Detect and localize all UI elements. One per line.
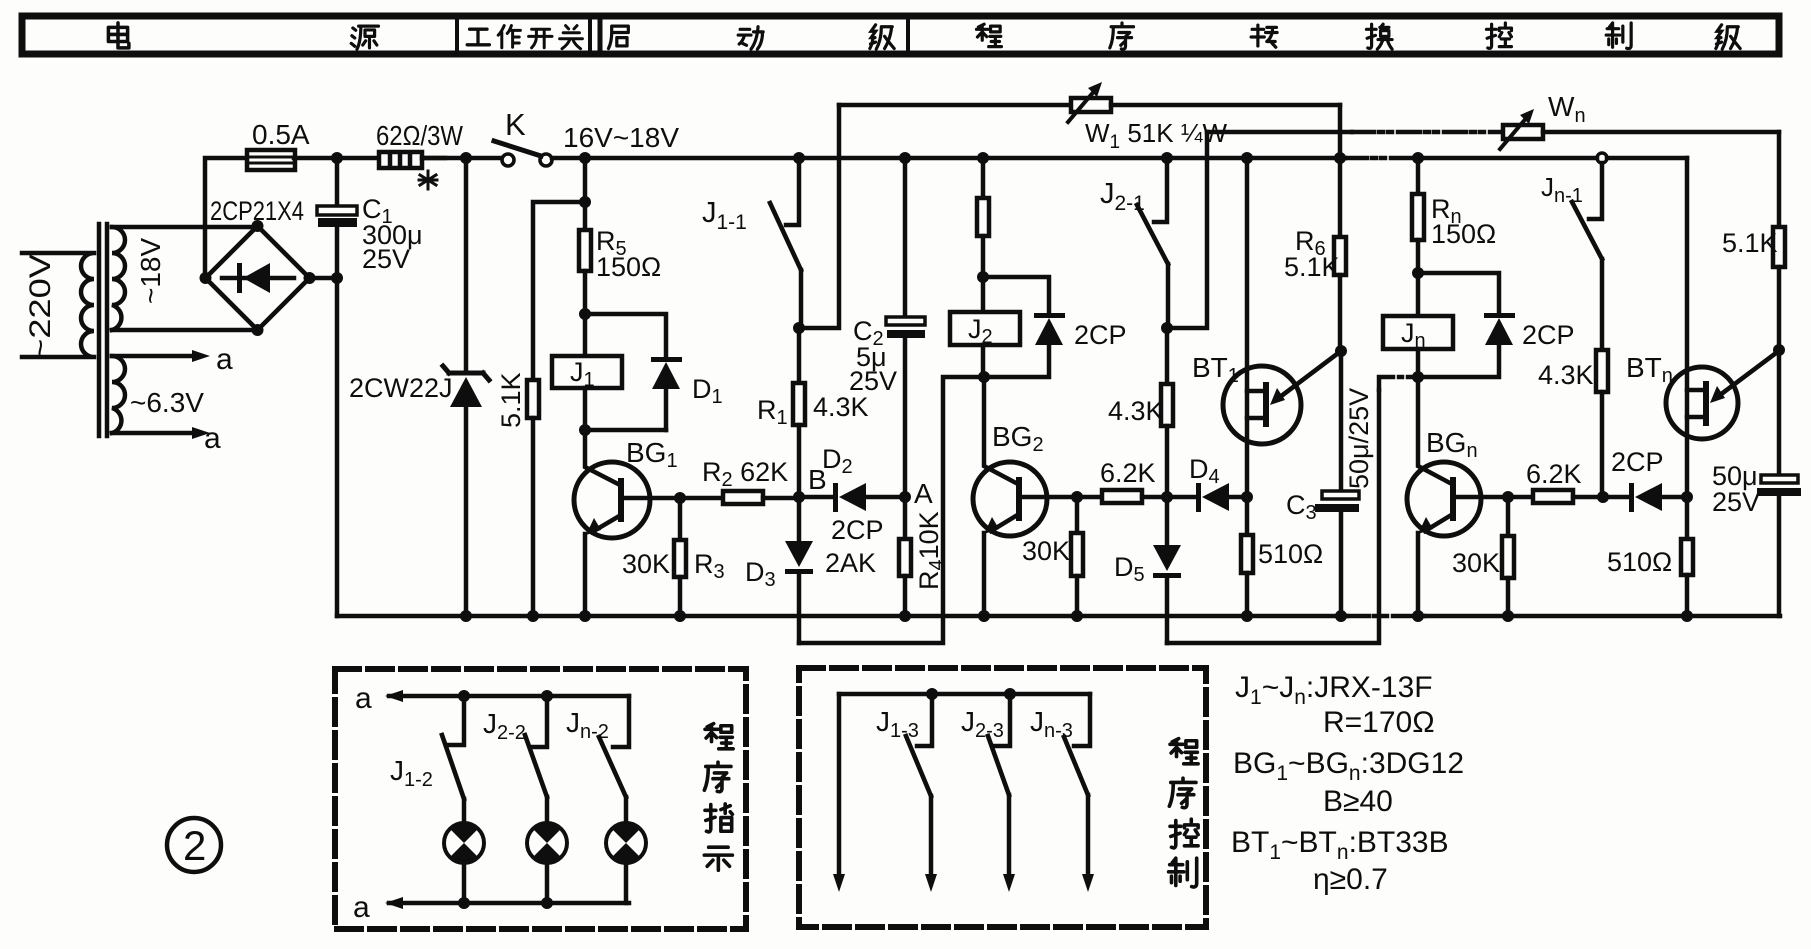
relay contact J1-1 [786,158,799,225]
relay contact J1-3 [917,694,932,746]
resistor 4.3K stage2 [1165,328,1170,384]
svg-text:30K: 30K [1022,536,1070,566]
lamp bus bottom wire [389,901,629,906]
resistor 5.1K (stage1 bias) [579,196,591,208]
node base/R3 [674,492,686,504]
svg-text:5.1K: 5.1K [1284,252,1340,282]
header text 换 [1366,24,1392,49]
capacitor C3 50u/25V [1339,351,1344,491]
transistor BGn [1418,377,1450,483]
resistor 510ohm stage2 [1245,497,1250,535]
control bus top wire [839,692,1090,697]
wire Jn bottom [1416,349,1421,377]
node lamp1 top [458,690,470,702]
wire J2 top to 2CP top [983,277,1049,313]
main rail 16V-18V [552,156,1345,161]
relay contact J2-3 [995,694,1010,746]
node rail J2-1 [1161,152,1173,164]
node 30K bottom stagen [1502,610,1514,622]
node J2 top branch [977,271,989,283]
svg-text:25V: 25V [362,244,410,274]
diode D1 [651,357,682,362]
diode 2CP coupling stagen [1629,483,1634,512]
node J1 bottom / BG1 collector [579,424,591,436]
svg-text:a: a [204,422,221,455]
diode D5 [1165,497,1170,545]
node B [793,491,805,503]
svg-text:2CP: 2CP [1522,320,1575,350]
resistor R1 4.3K [797,328,802,383]
header text 启 [608,26,628,48]
dashed box program indication [335,669,746,929]
node R3 bottom [674,610,686,622]
asterisk mark [419,171,437,189]
header table 电源/工作开关/启动级/程序转换控制级 [22,16,1779,54]
wire W1 left leg [799,105,839,328]
node C3 bottom [1335,610,1347,622]
lamp bus top wire [389,694,629,699]
wire fuse to C1 node to 62ohm [294,156,445,161]
label 程序控制 vertical [1169,739,1199,887]
bridge rectifier 2CP21X4 [206,226,310,330]
node A [899,491,911,503]
header text 级 [870,25,894,49]
wire Wn left leg [1167,132,1207,328]
svg-text:25V: 25V [849,366,897,396]
svg-text:62Ω/3W: 62Ω/3W [376,120,463,151]
svg-text:510Ω: 510Ω [1607,547,1672,577]
svg-text:25V: 25V [1712,487,1760,517]
svg-text:a: a [355,682,372,715]
wire Wn line solid part [1207,130,1352,135]
header text 程 [976,24,1001,46]
figure number circled 2 [167,818,221,872]
node C2 rail [899,152,911,164]
rail dash-dot break [1345,156,1424,161]
node J1-3 top [926,688,938,700]
svg-text:R=170Ω: R=170Ω [1323,706,1435,739]
potentiometer Wn [1503,125,1543,139]
header text 转 [1251,25,1277,47]
wire Wn line dash-dot part [1352,130,1503,135]
bottom rail [337,614,1347,619]
svg-text:2CP: 2CP [1611,447,1664,477]
wire BG1 base to R2 [624,496,723,501]
relay coil J2 [950,312,1020,345]
transformer primary winding ~220V [22,253,94,357]
node bridge bottom [252,324,264,336]
svg-text:30K: 30K [622,549,670,579]
diode 2CP (J2 flyback) [1034,313,1065,318]
svg-text:0.5A: 0.5A [252,119,310,150]
dashed box program control [799,668,1206,927]
node lamp2 top [541,690,553,702]
wire Wn right leg down [1777,132,1782,227]
node rail R6 top [1334,152,1346,164]
relay coil Jn [1383,316,1453,349]
capacitor 50u 25V stagen [1777,350,1782,475]
wire BGn base to 6.2K [1456,495,1533,500]
node Jn top branch [1412,267,1424,279]
svg-text:5.1K: 5.1K [496,372,526,428]
unijunction transistor BT1 [1245,158,1250,497]
potentiometer W1 51K 1/4W [839,103,1071,108]
header text 工作开关 [467,26,582,49]
resistor R3 30K [678,498,683,540]
relay contact Jn-1 [1589,163,1602,219]
unijunction transistor BTn [1685,158,1690,497]
svg-text:~220V: ~220V [24,254,57,360]
control left drop wire [837,694,842,880]
node J2-1 blade / 4.3K top [1161,322,1173,334]
wire BG2 base to 6.2K [1022,495,1102,500]
resistor 62ohm/3W [379,152,422,168]
svg-text:4.3K: 4.3K [1538,360,1594,390]
svg-text:2CP: 2CP [1074,320,1127,350]
resistor 6.2K stage2 [1102,490,1142,503]
relay contact J2-2 [532,696,547,747]
node rail Rn top [1412,152,1424,164]
svg-text:4.3K: 4.3K [813,392,869,422]
capacitor C1 300u 25V [335,158,340,206]
resistor R2 62K [723,491,763,504]
transformer secondary winding ~18V [112,227,125,330]
resistor 5.1K stagen [1773,227,1785,267]
node BGn emitter bottom [1412,610,1424,622]
resistor Rn 150ohm [1416,158,1421,194]
terminal circle Jn-1 pivot [1597,153,1607,163]
wire secondary top to bridge AC1 [112,225,257,230]
wire D5 under-rail feedback to Jn coil [1167,390,1379,643]
node 5.1K bottom [527,610,539,622]
relay contact J1-2 [449,696,464,745]
node J1-1 blade / R1 top [793,322,805,334]
node BG2 emitter bottom [978,610,990,622]
diode D3 2AK [797,497,802,541]
node J2-3 top [1004,688,1016,700]
diode D2 2CP [799,495,833,500]
resistor R4 10K [903,497,908,539]
zener diode 2CW22J [460,152,472,164]
wire secondary bottom to bridge AC2 [112,328,258,333]
node bridge left [200,272,212,284]
wire Jn top to 2CP top [1418,273,1499,313]
node bridge top [252,220,264,232]
svg-text:6.2K: 6.2K [1526,459,1582,489]
resistor stage2 150ohm [981,158,986,198]
svg-text:η≥0.7: η≥0.7 [1313,863,1388,896]
resistor 4.3K stagen [1596,350,1608,392]
resistor R6 5.1K [1338,158,1343,237]
svg-text:~6.3V: ~6.3V [130,387,204,418]
svg-text:2: 2 [183,822,206,869]
relay contact Jn-2 [613,696,629,747]
header text 序 [1110,23,1134,49]
transformer T core [97,224,102,436]
header text 动 [738,27,763,49]
resistor R5 150ohm [583,158,588,230]
wire J2 bottom [981,345,986,377]
relay contact Jn-3 [1074,694,1090,746]
lamp XD2 [527,823,567,863]
node R6 bottom / BT1 emitter [1335,345,1347,357]
wire negative column down to bottom rail [335,278,340,616]
wire W1 right leg down to rail [1338,105,1343,158]
fuse 0.5A [247,150,295,170]
header text 控 [1486,23,1511,49]
header text 源 [351,26,378,49]
rail right portion [1424,156,1597,161]
node base/30K stage2 [1071,491,1083,503]
switch K [502,154,514,166]
node 2CP / BTn base1 [1681,491,1693,503]
node C1 top [331,152,343,164]
svg-text:K: K [505,107,526,142]
relay contact J2-1 [1154,158,1167,222]
node 30K bottom stage2 [1071,610,1083,622]
node 5.1K bottom / BTn emitter [1773,344,1785,356]
diode D4 [1196,483,1201,512]
svg-text:16V~18V: 16V~18V [563,122,679,153]
svg-text:A: A [914,478,933,509]
relay coil J1 [552,356,622,388]
svg-text:50μ/25V: 50μ/25V [1344,388,1374,489]
svg-text:6.2K: 6.2K [1100,458,1156,488]
resistor 30K stagen [1506,497,1511,536]
svg-text:2AK: 2AK [825,548,876,578]
wire 62ohm to switch K [422,156,502,161]
rail to BTn corner [1607,156,1687,161]
svg-text:B≥40: B≥40 [1323,785,1393,818]
node base/30K stagen [1502,491,1514,503]
resistor 6.2K stagen [1533,490,1573,503]
resistor 30K stage2 [1075,497,1080,533]
node lamp2 bottom [541,897,553,909]
transformer secondary winding ~6.3V [112,356,125,433]
svg-text:R2 62K: R2 62K [702,457,788,491]
node BG1 emitter bottom [579,610,591,622]
lamp XDn [606,823,646,863]
node rail J1-1 [793,152,805,164]
node bridge right [304,272,316,284]
node D4 / BT1 base1 [1241,491,1253,503]
node rail BT1 column [1241,152,1253,164]
svg-text:150Ω: 150Ω [596,252,661,282]
node 4.3K bottom junction stagen [1597,491,1609,503]
header text 电 [108,23,128,48]
svg-text:5.1K: 5.1K [1722,228,1778,258]
node Jn bottom / BGn collector [1412,371,1424,383]
svg-text:J1~Jn:JRX-13F: J1~Jn:JRX-13F [1235,671,1433,709]
svg-text:a: a [353,891,370,924]
svg-text:BG1~BGn:3DG12: BG1~BGn:3DG12 [1233,747,1464,785]
node 510 bottom stagen [1681,610,1693,622]
node R4 bottom [899,610,911,622]
node 510 bottom stage2 [1241,610,1253,622]
wire 6.3V top lead to terminal a [112,354,198,359]
wire bridge right to negative column [310,276,338,281]
node J2 bottom / BG2 collector [978,371,990,383]
wire J1 top to D1 top [585,314,666,357]
svg-text:30K: 30K [1452,548,1500,578]
node zener bottom [460,610,472,622]
node 4.3K bottom junction stage2 [1161,491,1173,503]
node C1 bottom / bridge right junction [331,272,343,284]
diode 2CP (Jn flyback) [1484,313,1515,318]
node rail R5 column [579,152,591,164]
wire 6.3V bottom lead to terminal a [112,431,198,436]
node J1 top branch [579,308,591,320]
svg-text:~18V: ~18V [135,238,166,304]
bottom rail dash-dot break [1347,614,1424,619]
resistor 510ohm stagen [1685,497,1690,539]
node lamp1 bottom [458,897,470,909]
svg-text:2CP: 2CP [831,515,884,545]
svg-text:150Ω: 150Ω [1431,219,1496,249]
svg-text:2CW22J: 2CW22J [349,373,453,403]
svg-text:510Ω: 510Ω [1258,539,1323,569]
wire bridge left to fuse [205,158,248,278]
wire D3 under-rail feedback to J2 coil [799,377,984,643]
label 程序指示 vertical [704,724,733,871]
transistor BG1 [585,430,618,484]
bottom rail right portion [1424,614,1780,619]
svg-text:a: a [216,343,233,376]
node rail J2 column [977,152,989,164]
svg-text:R410K: R410K [914,511,948,590]
svg-text:4.3K: 4.3K [1108,396,1164,426]
capacitor C2 5u 25V [903,158,908,317]
wire J1 bottom to D1 bottom [585,388,666,430]
transistor BG2 [984,377,1016,483]
lamp XD1 [444,823,484,863]
header text 制 [1606,23,1631,49]
header text 级 [1716,25,1740,49]
